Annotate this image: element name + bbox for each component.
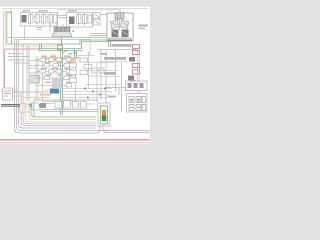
wire K1 to pump [100, 14, 107, 16]
label pump part number [112, 44, 132, 47]
left riser bundle verticals mid [36, 56, 38, 100]
right terminal block [127, 94, 148, 113]
mid horizontals to the right [40, 110, 98, 112]
left sensor box [3, 88, 13, 100]
small label above junction [100, 53, 107, 55]
enclosure edge vertical [89, 38, 91, 56]
connector block A outline [21, 13, 58, 27]
riser bundle upturn right [96, 112, 100, 133]
frame top line [2, 8, 148, 10]
wire pair A-B [58, 16, 67, 18]
connector block B elements [77, 13, 92, 26]
pump P1 right rotor [122, 30, 129, 38]
pink vertical pair right [138, 46, 140, 95]
teal hooks [68, 52, 77, 55]
connector block A text above [22, 10, 30, 12]
wires pump left [90, 34, 107, 36]
orange cell [70, 58, 76, 62]
left gray riser bundle [15, 40, 151, 134]
wire green second [38, 42, 111, 49]
small boxes left column [29, 61, 38, 74]
red stack items [133, 45, 140, 89]
pump P1 top gearbox [115, 13, 124, 20]
connector block B outline [67, 13, 93, 28]
valve V1 trapezoid [52, 32, 72, 37]
dark stack item 2 [128, 76, 134, 81]
colored trio green [31, 102, 96, 117]
component rows inside orange box [40, 58, 76, 87]
hatched connector left [30, 76, 40, 84]
text marks between rows [41, 56, 74, 83]
connector block A elements [29, 13, 58, 25]
bottom-left module marks [22, 106, 28, 110]
frame bottom pink line [0, 142, 150, 144]
bus gray horizontal 1 [7, 37, 107, 39]
wires dropping to valve V1 [50, 22, 69, 31]
bottom-left module row [20, 103, 39, 112]
junction dots [84, 88, 106, 99]
orange box top extension [43, 58, 80, 60]
green enclosure box bottom [34, 100, 98, 117]
wire green drops mid pair [75, 49, 77, 59]
valve V1 dot [73, 31, 75, 33]
wire red vertical [4, 49, 6, 88]
cluster right of box [80, 58, 104, 75]
wire orange horizontal upper [14, 45, 62, 47]
left edge small column boxes [70, 63, 77, 83]
gray filled block in box [52, 78, 62, 88]
bottom row wires [46, 103, 94, 106]
strip internal marks [128, 83, 144, 88]
connector block B dark coil [69, 17, 75, 25]
pump unit P1 outline [107, 13, 133, 41]
wire green main horizontal [7, 40, 110, 44]
wire pink left vertical [4, 11, 13, 88]
vertical pair right of cluster [89, 52, 98, 103]
purple right corner to edge [103, 112, 150, 133]
teal stack item [129, 81, 135, 84]
green long pair verticals [61, 51, 63, 116]
gray vertical x106 [105, 50, 107, 112]
wires joining rows [36, 60, 71, 91]
left stub wires [8, 54, 30, 64]
orange diagonal mark [62, 51, 68, 54]
wire green drops left pair [40, 44, 42, 51]
wire terminals right [106, 86, 109, 89]
page background [0, 0, 150, 150]
gray drop right of blocks [121, 62, 123, 112]
connector block A dark coil [22, 15, 27, 23]
label part no right 2 [104, 72, 116, 75]
wire vertical from block A [24, 26, 26, 40]
wires cluster right [76, 56, 120, 85]
connector block A pigtail [36, 28, 42, 30]
colored trio pink [26, 102, 97, 122]
purple net horizontal [13, 91, 62, 93]
pump P1 left rotor [112, 30, 119, 38]
orange top stubs [52, 54, 55, 62]
dark stack item [129, 57, 135, 62]
sensor red marks [4, 91, 11, 96]
accumulator cartridge green [101, 106, 108, 124]
valve V1 tail wire [61, 37, 63, 48]
relay K1 twin box [94, 13, 101, 19]
purple left leg [21, 92, 96, 126]
long gray vertical right A [100, 50, 102, 100]
wire green pump drops [109, 40, 111, 47]
wire green right side of left loop [11, 11, 13, 44]
junction rows with dots [63, 89, 112, 98]
valve V1 hatched body [54, 27, 70, 32]
bus gray horizontal 2 [14, 39, 90, 41]
terminal block marks [130, 100, 140, 108]
accumulator orange charge [102, 110, 107, 116]
long gray vertical right B [115, 50, 117, 92]
accumulator assembly outer [98, 103, 110, 126]
purple top right [106, 88, 126, 96]
solenoid green blob [58, 45, 63, 50]
connector block B text above [68, 10, 77, 12]
wire top to pump stub [57, 9, 120, 11]
sensor wires [13, 90, 22, 96]
accumulator green charge [102, 116, 107, 122]
pump P1 base shading [108, 38, 132, 41]
orange subsystem box [43, 58, 76, 102]
wire yellow left vertical [5, 12, 12, 46]
wire green left vertical [7, 13, 12, 44]
terminal block cells [129, 97, 146, 111]
pump P1 center rod [119, 19, 121, 30]
label part no right 1 [104, 57, 126, 60]
orange text label [40, 94, 51, 96]
colored trio yellow [29, 102, 96, 120]
pump P1 stub top [119, 10, 121, 13]
wire green third [38, 50, 83, 52]
orange wire lower [22, 97, 50, 99]
blue module [50, 89, 59, 94]
connector at double line end [40, 103, 46, 108]
pump P1 left piston [111, 20, 119, 29]
small text left of terminal block [108, 96, 116, 98]
pump P1 right piston [121, 20, 129, 29]
thick dark double line [1, 105, 42, 107]
text right of pump [139, 25, 149, 27]
wire red horizontal [5, 48, 41, 50]
bottom center component row [55, 101, 87, 109]
upper purple connector strip [126, 81, 148, 91]
gray horizontal under pump [98, 49, 137, 51]
frame bottom red line [0, 139, 150, 141]
pump P1 base line [108, 40, 132, 42]
